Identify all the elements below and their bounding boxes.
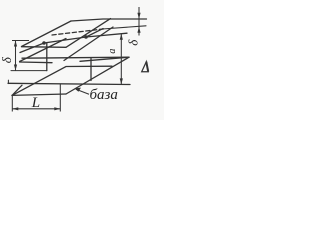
svg-text:a: a (107, 49, 118, 54)
delta symbol (142, 62, 149, 72)
extra diagonal mid (64, 27, 113, 61)
svg-text:L: L (31, 95, 40, 111)
long mid horizontal (22, 57, 129, 58)
lower plane front edge (12, 94, 66, 95)
svg-text:δ: δ (0, 56, 14, 63)
extension line right mid (104, 26, 146, 29)
upper plane left edge (22, 21, 72, 47)
lower plane right edge (66, 57, 129, 94)
dimension L extensions and line (12, 85, 60, 112)
upper plane front edge (22, 46, 67, 49)
lower plane left edge polyline with bend (12, 66, 112, 95)
wedge diagonal lower-left (20, 39, 66, 62)
svg-text:база: база (90, 87, 118, 103)
lower plane left corner steep segment (12, 85, 22, 95)
base surface trace line (8, 83, 130, 84)
dimension b left: extension + line (12, 41, 29, 71)
dot node 1 (42, 41, 46, 45)
dimension b right vertical (138, 7, 140, 36)
inner vertical x91 (90, 59, 92, 81)
svg-text:δ: δ (126, 39, 141, 46)
short horizontal under wedge (20, 61, 52, 64)
upper plane right edge (66, 19, 111, 48)
dot node 2 (84, 35, 88, 39)
dimension a vertical (120, 34, 122, 84)
b-dim bottom extension horizontal (11, 70, 47, 72)
baza leader arrow (75, 88, 81, 92)
lower plane back edge (80, 57, 129, 61)
dot2 steep branch (86, 29, 103, 37)
dashed plane back edge (52, 29, 104, 35)
vertical from dot1 (46, 43, 48, 71)
upper plane back edge with extension (71, 19, 147, 21)
measured dot line (20, 33, 127, 52)
trace line left stub (7, 80, 9, 83)
